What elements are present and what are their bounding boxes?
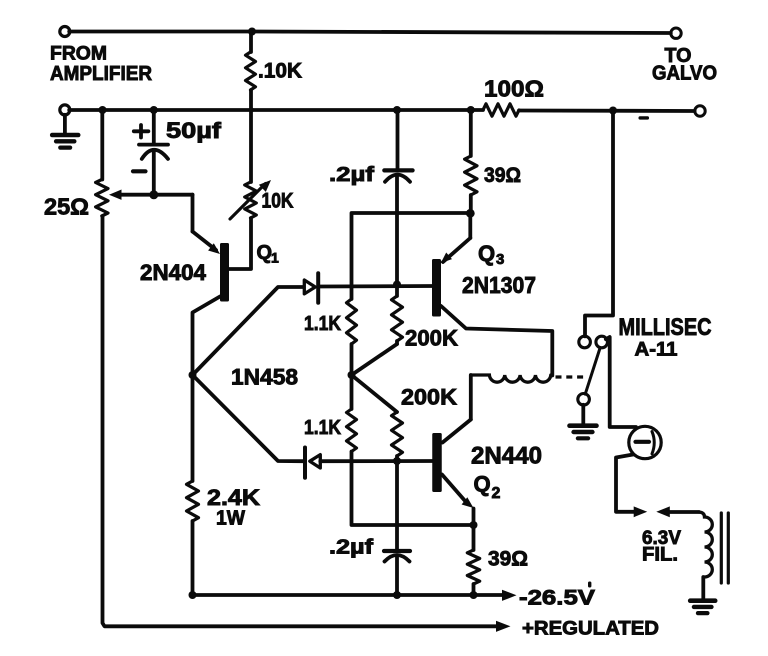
node rail/39Ω [467, 106, 475, 114]
capacitor 50µf plate- [142, 150, 168, 159]
wire: wiper to cap node [121, 193, 193, 197]
wire: winding to ground [701, 577, 705, 599]
coil filament winding [699, 512, 712, 577]
label 200K lower [401, 385, 457, 410]
wire: 2.4K to -26.5 rail [191, 521, 195, 595]
svg-text:A-11: A-11 [635, 340, 678, 361]
label 2N404 [140, 260, 207, 285]
label 2.4K [207, 485, 260, 510]
node rail/10K [250, 108, 254, 112]
label 50µf [166, 118, 222, 143]
label 6.3V [642, 528, 681, 549]
capacitor 50µf minus sign [133, 169, 146, 173]
label 1N458 [231, 365, 298, 390]
ground G1 at input [52, 115, 78, 148]
pot 25Ω lead top [100, 110, 104, 180]
ground G3 filament [690, 601, 715, 613]
wire: switch feed from rail [585, 111, 613, 337]
node D2-line/200K [393, 457, 401, 465]
svg-text:2: 2 [492, 485, 501, 502]
diode D2 triangle [310, 455, 321, 468]
transistor Q1 base bar [220, 243, 229, 302]
label +REGULATED [522, 618, 659, 640]
capacitor .2µf top lead [396, 110, 400, 168]
label Q2 [474, 472, 501, 503]
resistor 100Ω body [483, 104, 519, 116]
label 10K [262, 190, 294, 213]
label Q3 [478, 241, 504, 268]
wire: node A to D2 [193, 375, 304, 461]
label GALVO [652, 63, 717, 85]
label FIL. [642, 545, 678, 566]
arrow to filament left [634, 506, 648, 517]
terminal: TO GALVO bottom [695, 106, 705, 116]
resistor 200K upper leads [395, 285, 399, 345]
svg-text:Q: Q [474, 472, 491, 497]
svg-text:200K: 200K [405, 326, 458, 351]
resistor R1 .10K leads [249, 32, 253, 111]
node: top rail / .10K junction [248, 28, 256, 36]
rheostat 10K body [245, 182, 257, 218]
wire: D2 to Q2 base [320, 459, 436, 463]
resistor 39Ω upper body [465, 156, 477, 195]
wire: node A to D1 [193, 287, 304, 375]
Q3 emitter arrowhead [441, 253, 452, 264]
svg-text:FROM: FROM [50, 44, 107, 65]
capacitor .2µf top plate2 [385, 175, 410, 182]
svg-text:1W: 1W [216, 508, 245, 530]
capacitor .2µf bottom lead [395, 461, 399, 549]
capacitor 50µf lead top [152, 110, 156, 143]
label Q1 [257, 242, 280, 266]
svg-text:2N404: 2N404 [140, 260, 207, 285]
transistor Q2 base bar [432, 433, 442, 492]
label 1.1K lower [304, 417, 341, 439]
transformer core [721, 513, 728, 583]
wire: 200K lower lead [395, 456, 399, 461]
Q1 emitter wire [193, 232, 217, 251]
svg-text:MILLISEC: MILLISEC [619, 314, 712, 341]
stray mark on rail [639, 116, 650, 119]
ground G2 under switch [570, 426, 597, 439]
capacitor .2µf bottom plate2 [385, 555, 410, 562]
label .2µf top [329, 164, 374, 186]
wire: 1.1K lower to y525 elbow [352, 452, 474, 526]
node A junction [189, 371, 197, 379]
Q1 emitter arrowhead [208, 243, 220, 254]
svg-text:Q: Q [478, 241, 495, 266]
node B junction [348, 371, 356, 379]
resistor 200K lower body [392, 412, 403, 456]
svg-text:GALVO: GALVO [652, 63, 717, 85]
Q1 collector wire [193, 297, 221, 376]
svg-text:39Ω: 39Ω [488, 548, 528, 571]
label MILLISEC [619, 314, 712, 341]
svg-text:1.1K: 1.1K [304, 313, 341, 335]
rheostat 10K arrowhead [259, 180, 271, 192]
label A-11 [635, 340, 678, 361]
Q1 base wire [229, 218, 251, 269]
arrow +REGULATED [496, 621, 511, 632]
wire: coil left to Q2 collector [443, 375, 471, 443]
node wiper/50µf [149, 190, 158, 199]
label 1.1K upper [304, 313, 341, 335]
label AMPLIFIER [50, 63, 153, 85]
node y525 [470, 521, 478, 529]
diode D1 triangle [304, 280, 315, 294]
pot 25Ω body [96, 180, 108, 217]
bulb filament arc [652, 432, 654, 454]
label .2µf bottom [329, 537, 373, 559]
Q2 emitter arrowhead [462, 497, 474, 508]
resistor 2.4K body [187, 481, 199, 521]
Q3 collector wire [441, 306, 552, 376]
label 100Ω [484, 76, 544, 102]
bulb filament bar [636, 440, 650, 444]
capacitor 50µf plate+ [139, 143, 168, 147]
capacitor .2µf top plate1 [384, 168, 412, 172]
wire: Q1 collector to 2.4K [191, 375, 195, 481]
node rail/switch feed [609, 107, 617, 115]
svg-text:-26.5V: -26.5V [519, 586, 595, 609]
arrow to filament right [656, 506, 670, 517]
svg-text:1N458: 1N458 [231, 365, 298, 390]
wire: 1.1K to node B [350, 344, 354, 375]
svg-text:.10K: .10K [258, 60, 302, 83]
resistor 39Ω upper leads [469, 110, 473, 213]
label TO [665, 45, 692, 67]
wire: right contact to bulb [606, 337, 636, 427]
label 2N1307 [462, 272, 536, 298]
label 39Ω upper [484, 164, 521, 187]
svg-text:Q: Q [257, 242, 273, 264]
wire: bias top elbow [352, 213, 471, 299]
svg-text:100Ω: 100Ω [484, 76, 544, 102]
terminal: FROM AMPLIFIER top [60, 27, 70, 37]
wire: -26.5V rail [193, 593, 506, 597]
node rail/50µf [150, 106, 158, 114]
svg-text:AMPLIFIER: AMPLIFIER [50, 63, 153, 85]
wire: 200K upper to node B [352, 344, 398, 375]
diode D2 cathode bar [303, 448, 307, 478]
svg-text:1: 1 [271, 250, 279, 266]
label -26.5V [519, 586, 595, 609]
capacitor 50µf plus sign [134, 125, 149, 138]
svg-text:2N1307: 2N1307 [462, 272, 536, 298]
diode D1 cathode bar [316, 273, 320, 302]
bulb B1 envelope [629, 426, 661, 458]
node rail/39Ω lower [470, 591, 478, 599]
Q2 emitter wire [442, 475, 466, 503]
svg-text:3: 3 [496, 251, 504, 268]
resistor R1 .10K body [246, 52, 256, 90]
wire: wiper elbow down [191, 195, 195, 232]
terminal: FROM AMPLIFIER bottom [60, 105, 70, 115]
svg-text:FIL.: FIL. [642, 545, 678, 566]
wire: signal rail right of 100R [519, 109, 695, 113]
switch arm [585, 348, 600, 395]
svg-text:200K: 200K [401, 385, 457, 410]
label 2N440 [471, 443, 542, 470]
wire: signal rail left of 100R [69, 108, 483, 112]
switch contact circle left [579, 336, 591, 348]
resistor 200K upper body [392, 296, 403, 341]
label 1W [216, 508, 245, 530]
capacitor .2µf top lead2 [395, 176, 399, 285]
wire: node B down [350, 375, 354, 409]
wire: Q2 emitter down [472, 509, 476, 551]
svg-text:2N440: 2N440 [471, 443, 542, 470]
node rail/-26.5 left [189, 591, 197, 599]
node rail/.2µf [393, 106, 401, 114]
wire: 39Ω lower lead [472, 584, 476, 595]
wire: bulb to filament arrow [616, 455, 637, 512]
label 25Ω [44, 194, 89, 220]
node D1-line/200K [393, 281, 401, 289]
capacitor 50µf lead bottom [152, 151, 156, 196]
resistor 39Ω lower body [467, 550, 479, 584]
resistor 1.1K lower body [347, 409, 357, 452]
svg-text:10K: 10K [262, 190, 294, 213]
svg-text:1.1K: 1.1K [304, 417, 341, 439]
svg-text:+REGULATED: +REGULATED [522, 618, 659, 640]
svg-text:.2µf: .2µf [329, 164, 374, 186]
terminal: TO GALVO top [671, 28, 681, 38]
dashed linkage [556, 375, 586, 378]
resistor 1.1K upper body [347, 299, 357, 344]
label 200K upper [405, 326, 458, 351]
rheostat 10K arm [230, 184, 266, 220]
label FROM [50, 44, 107, 65]
svg-text:50µf: 50µf [166, 118, 222, 143]
label 39Ω lower [488, 548, 528, 571]
svg-text:2.4K: 2.4K [207, 485, 260, 510]
wire: filament arrow to coil [663, 510, 699, 514]
node rail/25Ω [99, 106, 107, 114]
rheostat 10K lead top [249, 110, 253, 182]
svg-text:.2µf: .2µf [329, 537, 373, 559]
switch pole circle [578, 394, 590, 406]
wire: D1 to Q3 base [318, 284, 433, 288]
transistor Q3 base bar [432, 259, 441, 317]
label .10K [258, 60, 302, 83]
svg-text:39Ω: 39Ω [484, 164, 521, 187]
Q3 emitter wire [443, 213, 470, 262]
svg-text:25Ω: 25Ω [44, 194, 89, 220]
capacitor .2µf bottom lead2 [395, 557, 399, 596]
wire: 25Ω to +REG rail [103, 216, 500, 626]
capacitor .2µf bottom plate1 [384, 549, 410, 553]
wire: top rail [69, 32, 671, 34]
wire: pole to ground [581, 405, 585, 424]
coil (galvo relay) body [471, 375, 551, 382]
switch contact circle right [596, 336, 608, 348]
pot 25Ω wiper arrow [109, 190, 122, 200]
arrow -26.5V [502, 590, 517, 601]
stray dot over V [588, 582, 591, 588]
node rail/.2µf bottom [393, 591, 401, 599]
wire: node B to 200K lower [352, 375, 398, 412]
node 39Ω/Q3 emitter [466, 209, 475, 218]
